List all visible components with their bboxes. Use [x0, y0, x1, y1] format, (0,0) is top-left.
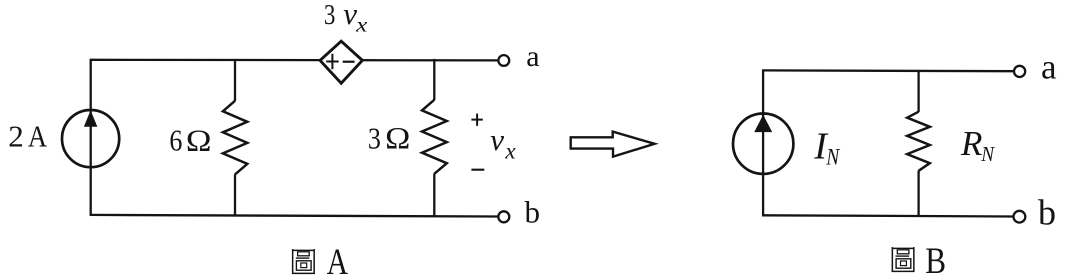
- wire top left segment (circuit A): [90, 59, 321, 62]
- wire top right segment (circuit A): [362, 59, 499, 62]
- label IN: [813, 125, 840, 169]
- wire stub below 6ohm: [234, 174, 236, 216]
- svg-text:v: v: [490, 122, 504, 157]
- svg-text:x: x: [355, 13, 368, 37]
- svg-text:6: 6: [169, 122, 182, 157]
- svg-text:v: v: [343, 0, 357, 31]
- resistor 6 ohm: [223, 101, 247, 175]
- svg-text:a: a: [1041, 48, 1057, 87]
- label vx (voltage): [490, 122, 516, 164]
- wire bottom (circuit B): [762, 215, 1014, 216]
- svg-text:3: 3: [324, 0, 336, 31]
- wire stub above 6ohm: [234, 59, 236, 101]
- wire stub below 3ohm: [433, 174, 435, 217]
- terminal a (circuit B): [1014, 66, 1025, 77]
- terminal a (circuit A): [498, 55, 509, 66]
- wire top (circuit B): [762, 69, 1014, 72]
- resistor 3 ohm: [422, 100, 447, 174]
- svg-text:N: N: [825, 145, 840, 170]
- wire left vertical (circuit A): [90, 60, 92, 215]
- terminal b (circuit A): [498, 211, 509, 222]
- svg-text:B: B: [925, 241, 946, 280]
- label figure A: [292, 242, 348, 280]
- svg-text:a: a: [526, 40, 539, 73]
- dependent source E1 (diamond 3vx): [320, 41, 362, 83]
- svg-text:x: x: [504, 139, 516, 164]
- resistor RN: [907, 112, 930, 171]
- label 3 vx: [324, 0, 368, 37]
- svg-text:A: A: [327, 242, 349, 280]
- svg-text:A: A: [28, 118, 48, 153]
- wire stub below RN: [917, 171, 919, 216]
- svg-text:b: b: [525, 194, 541, 229]
- svg-text:R: R: [960, 124, 982, 163]
- svg-text:2: 2: [8, 118, 24, 153]
- wire stub above 3ohm: [433, 59, 435, 100]
- big arrow (implication): [571, 132, 655, 157]
- label RN: [960, 124, 995, 166]
- label figure B: [892, 241, 946, 280]
- svg-text:b: b: [1038, 193, 1056, 233]
- minus sign (vx polarity): [471, 169, 484, 171]
- wire left vertical (circuit B): [762, 70, 764, 215]
- svg-text:Ω: Ω: [186, 122, 212, 157]
- current source I1 (2 A): [62, 110, 119, 167]
- terminal b (circuit B): [1014, 211, 1026, 223]
- wire bottom (circuit A): [90, 215, 499, 217]
- svg-text:Ω: Ω: [385, 120, 410, 155]
- plus sign (vx polarity): [471, 114, 482, 126]
- current source IN: [733, 114, 793, 174]
- svg-text:3: 3: [368, 120, 381, 155]
- wire stub above RN: [917, 70, 919, 112]
- svg-text:N: N: [980, 142, 995, 166]
